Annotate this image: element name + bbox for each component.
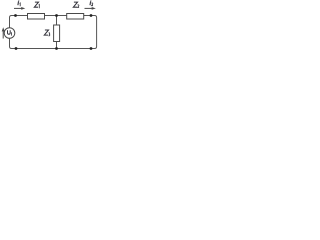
wire top-left corner from source to Z1 [10, 16, 28, 28]
wire Z2 to top-right corner then down right side [57, 16, 97, 49]
label I1 [18, 0, 20, 6]
node dot left bottom terminal [15, 47, 18, 50]
wire node A down to Z3 [56, 16, 58, 26]
node dot right bottom terminal [90, 47, 93, 50]
wire Z1 to Z2 through node A [45, 15, 67, 17]
voltage source U1 circle [4, 28, 15, 39]
current arrow I2 [85, 7, 96, 10]
current arrow I1 [14, 7, 25, 10]
wire bottom rail back to source [10, 38, 58, 48]
label Z1 [34, 2, 39, 8]
node dot A top middle junction [55, 14, 58, 17]
impedance Z2 [67, 14, 84, 20]
node dot right top terminal [90, 14, 93, 17]
label I2 [90, 0, 93, 5]
impedance Z1 [28, 14, 45, 20]
label Z2 [73, 2, 79, 7]
label U1 inside source [8, 30, 12, 35]
source voltage arrow [2, 27, 5, 38]
wire Z3 bottom to bottom rail [56, 42, 58, 49]
node dot left top terminal [14, 14, 17, 17]
impedance Z3 [54, 25, 60, 42]
label Z3 [44, 30, 50, 36]
node dot bottom middle junction [55, 47, 58, 50]
